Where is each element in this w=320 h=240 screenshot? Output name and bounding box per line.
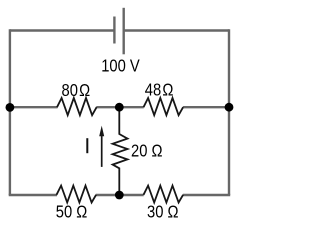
- svg-text:20 Ω: 20 Ω: [131, 141, 163, 161]
- svg-text:50 Ω: 50 Ω: [56, 202, 88, 222]
- svg-text:80 Ω: 80 Ω: [62, 81, 91, 101]
- svg-text:30 Ω: 30 Ω: [147, 202, 179, 222]
- svg-text:100 V: 100 V: [101, 56, 140, 76]
- svg-text:48 Ω: 48 Ω: [145, 80, 174, 100]
